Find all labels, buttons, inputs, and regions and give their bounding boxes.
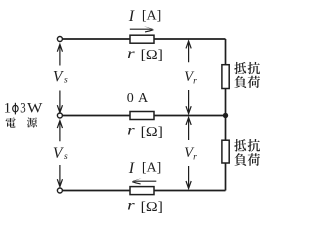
svg-text:3: 3 xyxy=(20,100,25,116)
svg-text:Vr: Vr xyxy=(184,145,197,163)
resistor load lower xyxy=(222,140,229,163)
svg-text:r: r xyxy=(127,47,135,62)
wire top line xyxy=(62,38,226,40)
phi symbol xyxy=(13,103,19,115)
svg-text:W: W xyxy=(27,100,43,116)
arrow Vs upper (down head) xyxy=(57,91,62,113)
svg-text:Vs: Vs xyxy=(53,68,68,85)
label resistive load upper xyxy=(234,62,246,74)
svg-text:r: r xyxy=(127,124,135,139)
source terminal middle xyxy=(57,113,62,118)
svg-text:Vs: Vs xyxy=(53,145,68,162)
svg-text:[A]: [A] xyxy=(142,8,161,23)
resistor r middle line xyxy=(130,112,154,120)
arrow Vs upper (up head) xyxy=(57,44,62,65)
label kanji dengen (power source) xyxy=(6,117,16,127)
arrow Vr lower (down head) xyxy=(186,166,191,188)
source terminal top xyxy=(57,37,62,42)
svg-text:[Ω]: [Ω] xyxy=(141,200,163,215)
wire bottom line xyxy=(62,190,226,192)
svg-text:1: 1 xyxy=(4,100,12,116)
resistor r top line xyxy=(130,35,154,43)
svg-text:I: I xyxy=(128,8,135,25)
svg-text:r: r xyxy=(127,199,135,214)
arrow Vr upper (down head) xyxy=(186,90,191,114)
svg-text:[Ω]: [Ω] xyxy=(141,48,163,63)
arrow Vs lower (down head) xyxy=(57,165,62,187)
svg-text:Vr: Vr xyxy=(184,69,197,87)
svg-text:0: 0 xyxy=(127,91,134,106)
svg-text:[Ω]: [Ω] xyxy=(141,125,163,140)
current arrow I top (rightward) xyxy=(130,28,153,30)
arrow Vs lower (up head) xyxy=(57,121,62,142)
resistor r bottom line xyxy=(130,187,154,195)
label resistive load lower xyxy=(234,139,246,152)
resistor load upper xyxy=(222,65,229,89)
svg-text:[A]: [A] xyxy=(142,160,161,175)
arrow Vr upper (up head) xyxy=(186,41,191,62)
svg-text:A: A xyxy=(138,91,149,106)
arrow Vr lower (up head) xyxy=(186,118,191,141)
wire right bus xyxy=(225,39,227,191)
source terminal bottom xyxy=(57,188,62,193)
svg-text:I: I xyxy=(128,160,135,177)
current arrow I bottom (leftward) xyxy=(133,180,156,182)
wire middle (neutral) line xyxy=(62,115,226,117)
node junction middle-right xyxy=(223,113,228,118)
